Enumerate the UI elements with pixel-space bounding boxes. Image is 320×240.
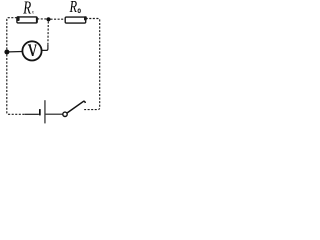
node junction top: [46, 17, 50, 21]
svg-text:R: R: [22, 0, 31, 18]
resistor R0: [65, 16, 87, 23]
wire: [51, 18, 66, 20]
svg-text:R: R: [69, 0, 77, 17]
wire: [84, 19, 100, 110]
node junction left: [4, 50, 9, 55]
wire: [42, 45, 48, 51]
wire: [47, 21, 49, 45]
resistor Rx: [17, 16, 38, 23]
battery: [39, 100, 46, 123]
wire: [7, 18, 25, 115]
svg-text:x: x: [31, 9, 35, 16]
wire: [46, 113, 63, 115]
wire: [37, 18, 46, 20]
switch S: [63, 101, 86, 116]
wire: [9, 51, 22, 53]
voltmeter V: [22, 41, 41, 60]
wire: [25, 113, 39, 115]
